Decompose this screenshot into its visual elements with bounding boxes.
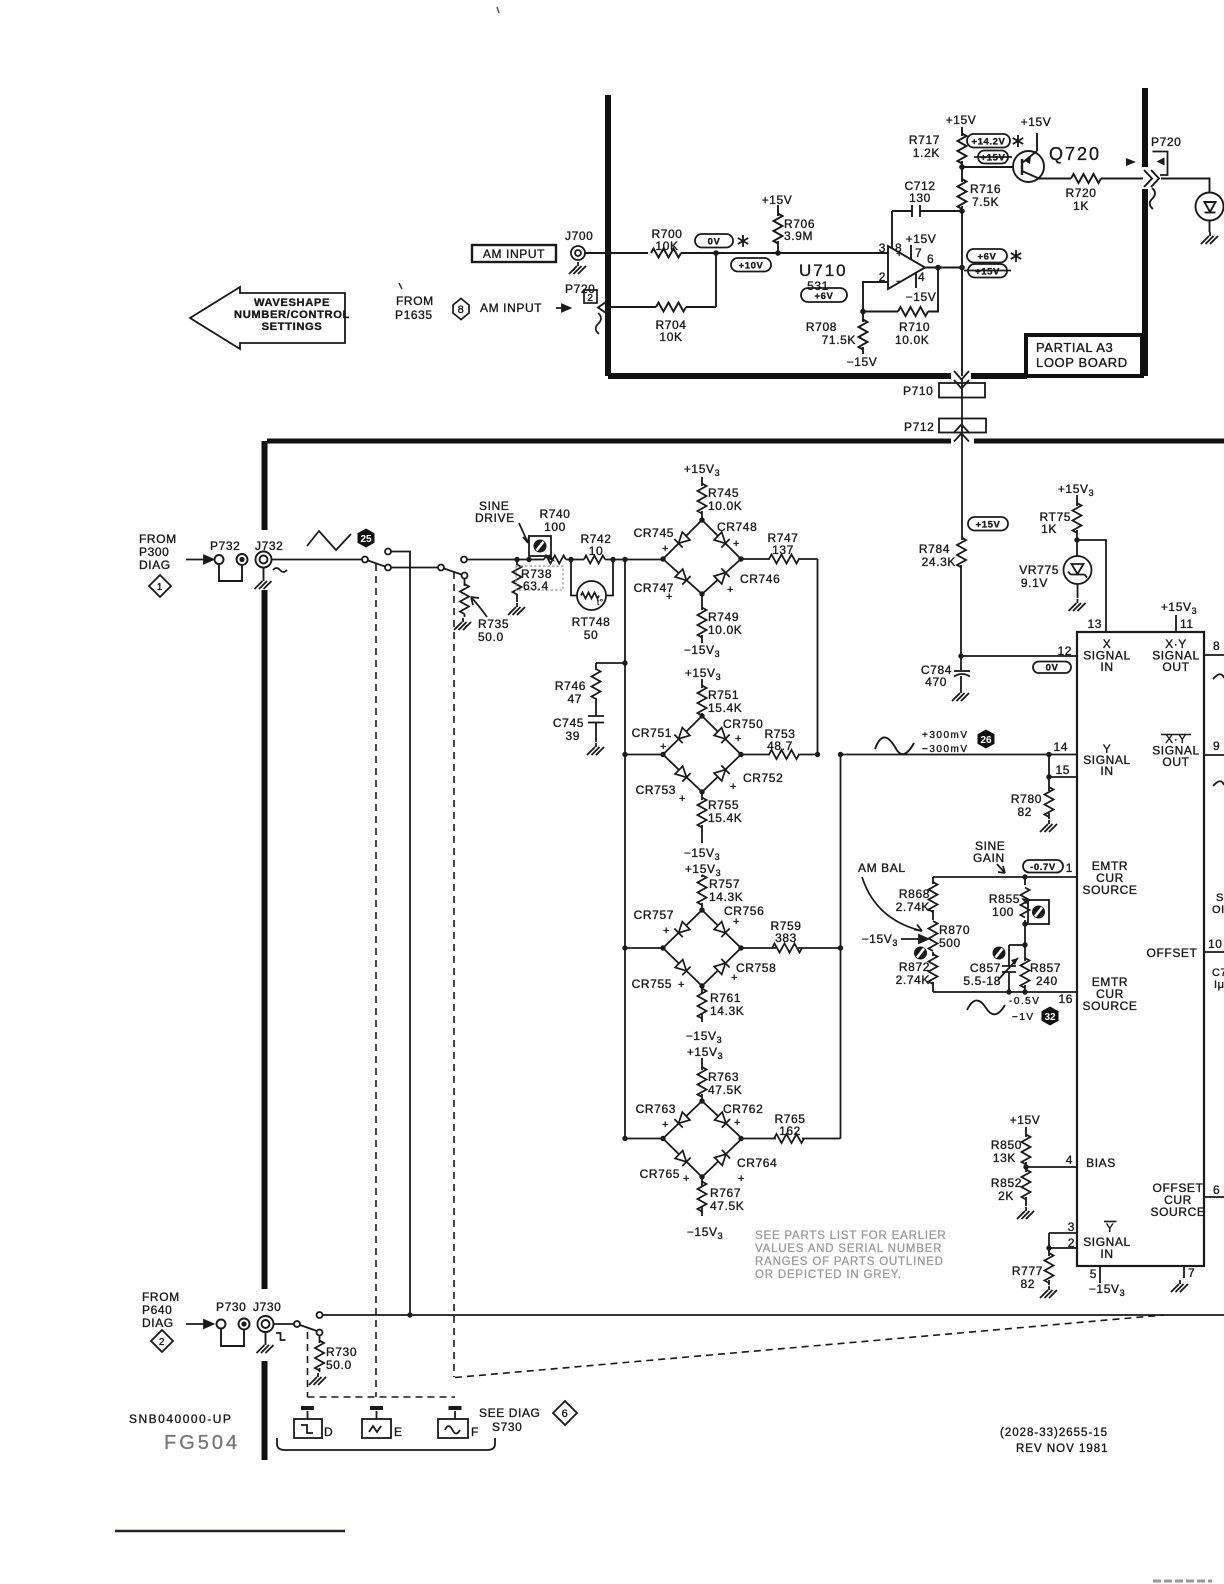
svg-text:383: 383	[775, 931, 797, 945]
svg-text:Y: Y	[1106, 1221, 1115, 1235]
svg-text:3: 3	[1068, 1220, 1075, 1234]
svg-text:R780: R780	[1011, 792, 1042, 806]
svg-text:10.0K: 10.0K	[708, 623, 742, 637]
svg-text:Q720: Q720	[1049, 144, 1101, 164]
svg-text:CR752: CR752	[743, 771, 783, 785]
svg-text:82: 82	[1020, 1277, 1035, 1291]
svg-text:R717: R717	[909, 133, 940, 147]
svg-text:0V: 0V	[1046, 663, 1059, 674]
svg-text:Iμ: Iμ	[1214, 979, 1224, 991]
svg-text:OUT: OUT	[1162, 660, 1189, 674]
svg-text:26: 26	[980, 735, 992, 746]
svg-text:CR753: CR753	[636, 783, 676, 797]
svg-text:OFFSET: OFFSET	[1147, 946, 1198, 960]
svg-text:470: 470	[925, 675, 947, 689]
svg-text:R745: R745	[708, 486, 739, 500]
svg-text:7: 7	[1188, 1266, 1195, 1280]
svg-text:CR758: CR758	[736, 961, 776, 975]
svg-text:R763: R763	[708, 1070, 739, 1084]
svg-text:CR746: CR746	[740, 572, 780, 586]
svg-text:P720: P720	[1151, 135, 1181, 149]
svg-text:+15V: +15V	[906, 232, 937, 246]
svg-text:BIAS: BIAS	[1086, 1156, 1116, 1170]
svg-text:47.5K: 47.5K	[710, 1199, 744, 1213]
svg-text:+14.2V: +14.2V	[972, 137, 1006, 148]
svg-text:7: 7	[915, 246, 922, 260]
svg-text:6: 6	[1213, 1183, 1220, 1197]
svg-text:2.74K: 2.74K	[896, 973, 930, 987]
svg-text:−15V: −15V	[906, 290, 937, 304]
svg-text:+15V: +15V	[981, 153, 1006, 164]
svg-text:0V: 0V	[708, 237, 721, 248]
svg-text:6: 6	[562, 1408, 569, 1420]
svg-text:P730: P730	[216, 1300, 246, 1314]
svg-text:8: 8	[458, 304, 465, 316]
svg-text:SOURCE: SOURCE	[1151, 1205, 1206, 1219]
svg-text:82: 82	[1017, 805, 1032, 819]
svg-text:CR764: CR764	[737, 1156, 777, 1170]
svg-text:1K: 1K	[1073, 199, 1089, 213]
svg-text:R710: R710	[899, 320, 930, 334]
svg-text:1.2K: 1.2K	[913, 146, 940, 160]
svg-text:50.0: 50.0	[326, 1358, 352, 1372]
svg-text:+6V: +6V	[815, 291, 834, 302]
svg-text:R870: R870	[939, 923, 970, 937]
svg-text:CR755: CR755	[632, 977, 672, 991]
svg-text:R855: R855	[989, 892, 1020, 906]
svg-text:9.1V: 9.1V	[1021, 576, 1048, 590]
svg-text:LOOP BOARD: LOOP BOARD	[1036, 355, 1128, 370]
svg-text:S: S	[1216, 892, 1224, 904]
svg-text:+: +	[738, 1173, 745, 1185]
svg-text:130: 130	[909, 191, 931, 205]
svg-text:+: +	[663, 925, 670, 937]
svg-text:-0.7V: -0.7V	[1030, 862, 1056, 873]
svg-text:SOURCE: SOURCE	[1083, 999, 1138, 1013]
svg-text:P640: P640	[142, 1303, 172, 1317]
svg-text:SETTINGS: SETTINGS	[262, 321, 323, 333]
svg-text:CR756: CR756	[724, 904, 764, 918]
svg-text:P710: P710	[903, 384, 933, 398]
svg-text:+15V: +15V	[976, 520, 1001, 531]
svg-text:−300mV: −300mV	[922, 744, 969, 755]
svg-text:CR757: CR757	[634, 908, 674, 922]
svg-text:DIAG: DIAG	[139, 558, 171, 572]
svg-text:R708: R708	[806, 320, 837, 334]
svg-text:SEE DIAG: SEE DIAG	[479, 1406, 540, 1420]
svg-text:+: +	[896, 248, 903, 260]
svg-text:P720: P720	[565, 282, 595, 296]
svg-text:AM INPUT: AM INPUT	[483, 247, 545, 261]
svg-text:R716: R716	[970, 182, 1001, 196]
svg-text:CR748: CR748	[717, 520, 757, 534]
svg-text:15.4K: 15.4K	[708, 701, 742, 715]
svg-text:CR762: CR762	[723, 1102, 763, 1116]
svg-text:+: +	[733, 916, 740, 928]
svg-text:J732: J732	[255, 539, 283, 553]
svg-text:2: 2	[879, 270, 886, 284]
svg-text:R740: R740	[539, 507, 570, 521]
svg-text:+15V: +15V	[975, 267, 1000, 278]
svg-text:R720: R720	[1065, 186, 1096, 200]
svg-text:R761: R761	[710, 991, 741, 1005]
svg-text:+15V: +15V	[1010, 1113, 1041, 1127]
svg-text:t°: t°	[597, 598, 604, 607]
svg-text:R757: R757	[709, 877, 740, 891]
svg-text:SEE PARTS LIST FOR EARLIER: SEE PARTS LIST FOR EARLIER	[755, 1230, 946, 1242]
svg-text:−: −	[896, 276, 903, 288]
svg-text:12: 12	[1057, 644, 1072, 658]
svg-text:P732: P732	[210, 539, 240, 553]
svg-text:CR763: CR763	[636, 1102, 676, 1116]
svg-text:R852: R852	[991, 1176, 1022, 1190]
svg-text:OI: OI	[1212, 904, 1224, 916]
svg-text:RANGES OF PARTS OUTLINED: RANGES OF PARTS OUTLINED	[755, 1256, 944, 1268]
svg-text:1K: 1K	[1041, 522, 1057, 536]
svg-text:+15V: +15V	[1021, 115, 1052, 129]
svg-text:+6V: +6V	[978, 252, 997, 263]
svg-text:R777: R777	[1012, 1264, 1043, 1278]
svg-text:R784: R784	[919, 542, 950, 556]
svg-text:63.4: 63.4	[523, 579, 549, 593]
svg-text:14: 14	[1053, 740, 1068, 754]
svg-text:DIAG: DIAG	[142, 1316, 174, 1330]
svg-text:IN: IN	[1100, 764, 1113, 778]
svg-text:24.3K: 24.3K	[922, 555, 956, 569]
svg-text:FROM: FROM	[396, 294, 434, 308]
svg-text:240: 240	[1036, 974, 1058, 988]
svg-text:+: +	[678, 979, 685, 991]
svg-text:R730: R730	[326, 1345, 357, 1359]
svg-text:C745: C745	[553, 716, 584, 730]
svg-text:47: 47	[567, 692, 582, 706]
svg-text:14.3K: 14.3K	[709, 890, 743, 904]
svg-text:(2028-33)2655-15: (2028-33)2655-15	[1000, 1427, 1108, 1439]
svg-text:+: +	[683, 1173, 690, 1185]
svg-text:162: 162	[779, 1124, 801, 1138]
svg-text:+15V: +15V	[946, 113, 977, 127]
svg-text:REV NOV 1981: REV NOV 1981	[1016, 1443, 1109, 1455]
svg-text:+300mV: +300mV	[922, 730, 969, 741]
svg-text:WAVESHAPE: WAVESHAPE	[254, 297, 330, 309]
svg-text:FROM: FROM	[142, 1290, 180, 1304]
svg-text:C7: C7	[1212, 967, 1224, 979]
svg-text:−1V: −1V	[1012, 1012, 1035, 1023]
svg-text:47.5K: 47.5K	[708, 1083, 742, 1097]
svg-text:FROM: FROM	[139, 532, 177, 546]
svg-text:100: 100	[992, 905, 1014, 919]
svg-text:11: 11	[1180, 617, 1194, 631]
svg-text:32: 32	[1044, 1012, 1056, 1023]
svg-text:+: +	[662, 543, 669, 555]
svg-text:100: 100	[544, 520, 566, 534]
svg-text:P1635: P1635	[395, 308, 433, 322]
svg-text:R868: R868	[899, 887, 930, 901]
svg-text:4: 4	[1066, 1153, 1073, 1167]
svg-text:137: 137	[772, 543, 794, 557]
svg-text:10.0K: 10.0K	[708, 499, 742, 513]
svg-text:50: 50	[584, 628, 599, 642]
svg-text:U710: U710	[799, 261, 848, 280]
svg-text:14.3K: 14.3K	[710, 1004, 744, 1018]
svg-text:R850: R850	[991, 1138, 1022, 1152]
svg-text:AM BAL: AM BAL	[858, 861, 906, 875]
svg-text:E: E	[394, 1425, 403, 1439]
svg-text:R767: R767	[710, 1186, 741, 1200]
svg-text:+: +	[660, 741, 667, 753]
svg-text:D: D	[324, 1425, 333, 1439]
svg-text:J700: J700	[565, 229, 593, 243]
svg-text:GAIN: GAIN	[973, 851, 1005, 865]
svg-text:SOURCE: SOURCE	[1083, 883, 1138, 897]
svg-text:16: 16	[1058, 992, 1073, 1006]
svg-text:5.5-18: 5.5-18	[963, 974, 1001, 988]
svg-text:DRIVE: DRIVE	[475, 511, 515, 525]
svg-text:+15V: +15V	[762, 193, 793, 207]
svg-text:IN: IN	[1100, 660, 1113, 674]
svg-text:500: 500	[939, 936, 961, 950]
svg-text:1: 1	[157, 582, 163, 593]
svg-text:39: 39	[565, 729, 580, 743]
svg-text:71.5K: 71.5K	[822, 333, 856, 347]
svg-text:8: 8	[1213, 639, 1220, 653]
svg-text:RT748: RT748	[572, 615, 611, 629]
svg-text:+: +	[727, 584, 734, 596]
svg-text:10K: 10K	[655, 239, 678, 253]
svg-text:+: +	[731, 972, 738, 984]
svg-text:OUT: OUT	[1162, 755, 1189, 769]
svg-text:CR751: CR751	[632, 726, 672, 740]
svg-text:R749: R749	[708, 610, 739, 624]
svg-text:10: 10	[1208, 937, 1223, 951]
svg-text:R872: R872	[899, 960, 930, 974]
svg-text:PARTIAL A3: PARTIAL A3	[1036, 340, 1113, 355]
svg-text:3: 3	[879, 241, 886, 255]
svg-text:2: 2	[159, 1337, 165, 1348]
svg-text:J730: J730	[253, 1300, 281, 1314]
svg-text:10K: 10K	[659, 330, 682, 344]
svg-text:1: 1	[1066, 861, 1073, 875]
svg-text:−15V: −15V	[847, 355, 878, 369]
svg-text:10.0K: 10.0K	[895, 333, 929, 347]
svg-text:6: 6	[927, 252, 934, 266]
svg-text:13: 13	[1087, 617, 1102, 631]
svg-text:R746: R746	[555, 679, 586, 693]
svg-text:9: 9	[1213, 739, 1220, 753]
svg-text:+: +	[735, 733, 742, 745]
svg-text:+10V: +10V	[739, 261, 764, 272]
svg-text:IN: IN	[1100, 1247, 1113, 1261]
svg-text:R735: R735	[478, 617, 509, 631]
svg-text:+: +	[730, 781, 737, 793]
svg-text:P712: P712	[904, 420, 934, 434]
svg-text:P300: P300	[139, 545, 169, 559]
svg-text:+: +	[734, 1117, 741, 1129]
svg-text:5: 5	[1090, 1267, 1097, 1281]
svg-text:4: 4	[918, 270, 925, 284]
svg-text:+: +	[662, 1119, 669, 1131]
svg-text:13K: 13K	[993, 1151, 1016, 1165]
svg-text:C857: C857	[970, 961, 1001, 975]
svg-text:+: +	[666, 591, 673, 603]
svg-text:CR750: CR750	[723, 717, 763, 731]
svg-text:+: +	[733, 538, 740, 550]
svg-text:-0.5V: -0.5V	[1009, 996, 1040, 1007]
svg-text:CR765: CR765	[640, 1167, 680, 1181]
svg-text:15.4K: 15.4K	[708, 811, 742, 825]
svg-text:48.7: 48.7	[767, 739, 793, 753]
svg-text:2K: 2K	[998, 1189, 1014, 1203]
svg-text:7.5K: 7.5K	[972, 195, 999, 209]
svg-text:2.74K: 2.74K	[896, 900, 930, 914]
svg-text:50.0: 50.0	[478, 630, 504, 644]
svg-text:VR775: VR775	[1019, 563, 1059, 577]
svg-text:VALUES AND SERIAL NUMBER: VALUES AND SERIAL NUMBER	[755, 1243, 942, 1255]
svg-text:3.9M: 3.9M	[784, 229, 813, 243]
svg-text:15: 15	[1055, 763, 1070, 777]
svg-text:NUMBER/CONTROL: NUMBER/CONTROL	[234, 309, 350, 321]
svg-text:FG504: FG504	[164, 1432, 240, 1454]
svg-text:25: 25	[360, 534, 372, 545]
svg-text:CR745: CR745	[634, 526, 674, 540]
svg-text:R751: R751	[708, 688, 739, 702]
svg-text:F: F	[471, 1425, 479, 1439]
svg-text:10: 10	[589, 544, 604, 558]
svg-text:S730: S730	[492, 1420, 522, 1434]
svg-text:SNB040000-UP: SNB040000-UP	[129, 1412, 232, 1426]
svg-text:R755: R755	[708, 798, 739, 812]
svg-text:AM INPUT: AM INPUT	[480, 301, 542, 315]
svg-text:+: +	[679, 793, 686, 805]
svg-text:OR DEPICTED IN GREY.: OR DEPICTED IN GREY.	[755, 1269, 902, 1281]
svg-text:R857: R857	[1030, 961, 1061, 975]
